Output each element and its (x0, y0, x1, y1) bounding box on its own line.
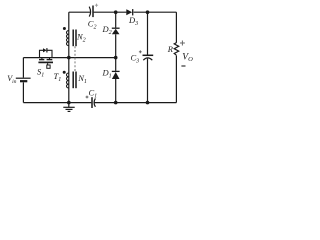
svg-text:T1: T1 (54, 71, 62, 83)
svg-text:R: R (167, 44, 174, 54)
svg-text:D3: D3 (128, 15, 138, 27)
svg-text:C3: C3 (131, 52, 140, 64)
svg-text:C1: C1 (89, 88, 98, 100)
svg-text:C2: C2 (88, 19, 97, 31)
svg-text:D1: D1 (102, 67, 112, 79)
svg-text:VO: VO (182, 52, 193, 63)
svg-text:N2: N2 (76, 32, 86, 44)
svg-text:D2: D2 (102, 24, 112, 36)
svg-text:S1: S1 (37, 67, 44, 79)
svg-text:Vin: Vin (7, 74, 16, 85)
svg-text:N1: N1 (77, 73, 87, 85)
